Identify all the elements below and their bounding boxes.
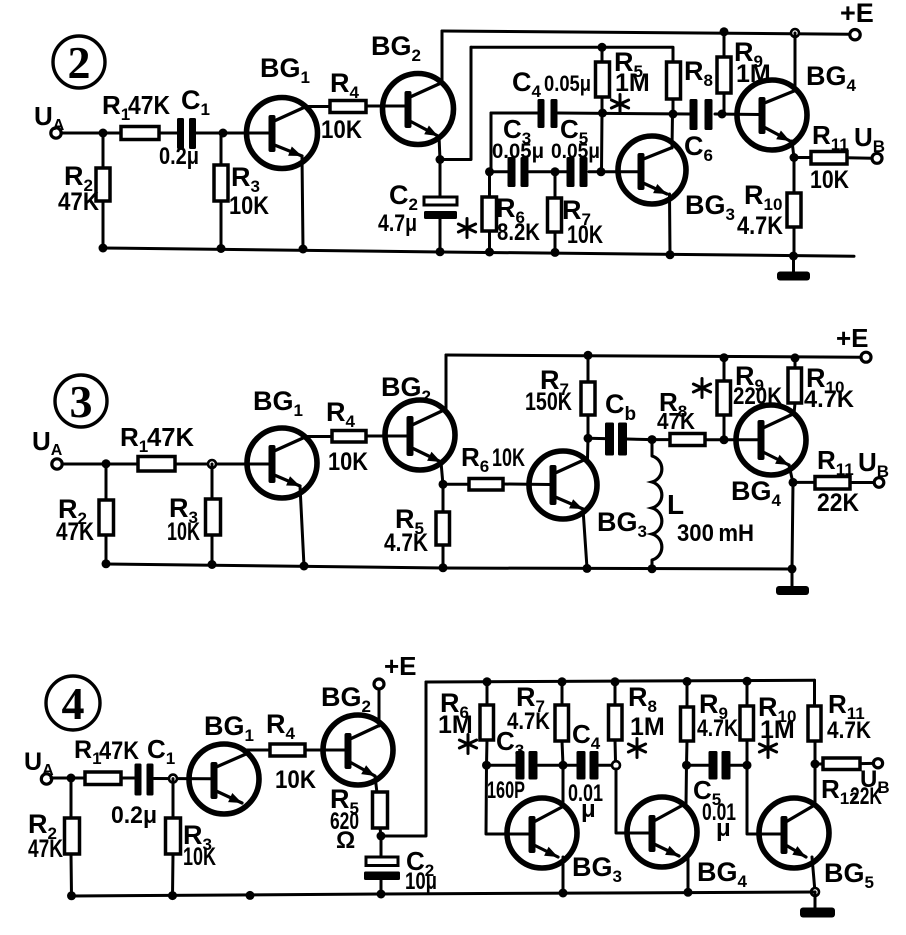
resistor R1 47K (circuit 3) [120,422,194,471]
node R3 top junction (circuit 4) [169,775,177,783]
wire node to BG4 base (circuit 3) [724,438,758,441]
svg-text:47K: 47K [99,737,139,765]
svg-text:10K: 10K [492,444,525,472]
transistor BG1 (circuit 2) [247,53,318,169]
capacitor Cb (circuit 3) [588,389,652,456]
node UA input terminal (circuit 4) [24,748,54,784]
wire BG2 emitter to node (circuit 3) [441,462,443,485]
node R7 top on rail (circuit 3) [584,351,593,360]
transistor BG4 (circuit 3) [731,405,806,510]
node R3 ground junction (circuit 4) [168,891,177,900]
svg-text:10K: 10K [167,518,200,546]
svg-text:+E: +E [384,651,417,681]
svg-text:3: 3 [70,376,93,427]
node Cb R7 junction (circuit 3) [584,434,593,443]
wire BG2 collector riser to +E rail [441,31,444,83]
resistor R2 47K [58,133,110,248]
svg-text:10K: 10K [275,766,316,794]
capacitor C3 0.05u [492,114,544,187]
resistor R1 47K [102,90,170,140]
resistor R2 47K (circuit 4) [28,778,80,896]
resistor R7 4.7K (circuit 4) [507,682,569,765]
ground rail (circuit 3) [106,564,792,569]
svg-text:47K: 47K [147,422,194,452]
node UB output terminal (circuit 4) [860,759,890,797]
node R7 ground junction [551,248,560,257]
circuit 4 badge [46,676,100,730]
wire BG2 collector riser (circuit 3) [444,355,446,410]
node BG3 emitter ground junction [666,250,675,259]
svg-text:1M: 1M [630,713,665,741]
resistor R2 47K (circuit 3) [56,464,114,564]
resistor R9 220K (circuit 3) [717,358,783,440]
wire BG4 emitter to output node [792,141,794,158]
node input junction [99,129,108,138]
svg-text:0.05μ: 0.05μ [544,71,591,96]
ground rail (circuit 4) [72,892,816,896]
capacitor C3 160P (circuit 4) [487,726,538,804]
svg-text:300 mH: 300 mH [677,520,754,547]
svg-text:47K: 47K [657,408,695,434]
resistor R12 22K output (circuit 4) [815,758,882,810]
svg-text:47K: 47K [28,835,63,863]
capacitor C2 4.7u electrolytic [378,160,457,252]
node UA input terminal (circuit 2) [34,101,65,138]
node R6 top on rail (circuit 4) [483,677,492,686]
resistor R10 4.7K (circuit 3) [788,358,855,414]
node BG4 collector on +E rail [791,29,799,37]
svg-text:4.7K: 4.7K [507,708,551,735]
wire BG3 emitter riser (circuit 3) [583,509,587,568]
phase-shift top wire [491,113,759,115]
top rail (circuit 4) [426,680,815,682]
svg-text:0.05μ: 0.05μ [551,139,600,163]
resistor R6 8.2K [458,172,540,252]
node UB output terminal (circuit 2) [854,122,885,163]
resistor R7 150K (circuit 3) [525,355,595,438]
wire BG1 collector to R4 (circuit 4) [246,749,271,752]
svg-text:+E: +E [836,323,869,353]
wire UA to R1 (circuit 3) [62,463,139,466]
resistor R11 22K output (circuit 3) [793,445,874,517]
wire R1 to C1 [159,132,178,135]
node R2 ground junction [99,244,108,253]
capacitor C5 0.01u (circuit 4) [687,751,748,842]
svg-text:10K: 10K [567,221,603,249]
resistor R3 10K (circuit 4) [166,779,217,896]
ground (circuit 3) [776,569,809,595]
capacitor C4 0.05u [512,67,591,128]
node R10 top on rail (circuit 4) [743,677,752,686]
node R9 top on +E rail [720,27,729,36]
transistor BG4 (circuit 2) [737,61,857,150]
resistor R4 10K (circuit 3) [326,397,368,476]
wire BG1 collector to R4 (circuit 3) [303,435,333,438]
svg-text:4.7K: 4.7K [827,717,872,744]
wire BG4 emitter riser (circuit 4) [687,856,690,892]
node R7 bottom junction (circuit 4) [559,761,568,770]
wire R6 to BG3 base (circuit 3) [503,483,550,487]
capacitor C5 0.05u [551,114,600,187]
svg-text:L: L [667,489,684,520]
node R5 ground junction (circuit 3) [439,563,448,572]
svg-text:0.05μ: 0.05μ [492,139,544,163]
wire C1 to BG1 base (circuit 4) [154,777,211,780]
node R7 top on rail (circuit 4) [558,677,567,686]
transistor BG1 (circuit 3) [247,386,317,498]
node R5 top [598,43,607,52]
ground (circuit 2) [777,256,810,281]
wire BG1 emitter riser (circuit 3) [300,486,304,566]
node R6 ground junction [485,248,494,257]
resistor R11 4.7K (circuit 4) [808,680,872,744]
wire BG3 collector riser (circuit 3) [586,439,590,460]
wire node to C3 (circuit 4) [487,764,518,767]
capacitor C1 0.2u (circuit 4) [111,734,175,829]
node R5 link junction [597,167,606,176]
resistor R4 10K (circuit 4) [266,709,316,794]
svg-text:0.2μ: 0.2μ [111,802,157,829]
resistor R10 1M (circuit 4) [740,681,796,765]
resistor R4 10K [321,68,366,144]
resistor R6 10K (circuit 3) [461,442,525,490]
resistor R8 1M (circuit 4) [609,682,665,761]
wire C4 input drop [490,113,493,172]
wire UA to R1 [61,132,122,135]
transistor BG1 (circuit 4) [189,711,259,814]
node R3 ground junction (circuit 3) [208,560,217,569]
wire emitter node to R6 (circuit 3) [443,483,470,486]
wire R10 node to BG5 base (circuit 4) [747,765,782,834]
resistor R9 1M [717,32,771,115]
node R9 bottom junction (circuit 4) [682,761,691,770]
node R9 bottom junction (circuit 3) [720,435,729,444]
wire BG3 collector riser [671,114,675,148]
resistor R5 4.7K (circuit 3) [384,484,450,568]
transistor BG3 (circuit 2) [618,136,735,224]
svg-text:22K: 22K [817,489,859,517]
node ground rail junction [789,252,798,261]
feedback rail from BG2 emitter [471,47,673,62]
svg-text:47K: 47K [56,518,94,546]
node R2 ground junction (circuit 4) [67,891,76,900]
svg-text:4.7K: 4.7K [804,386,855,413]
svg-text:10K: 10K [328,448,368,476]
wire R4 to BG2 base [366,105,406,108]
wire R1 to BG1 base (circuit 3) [175,463,269,466]
node UB output terminal (circuit 3) [858,447,889,487]
node R8 bottom / BG3 collector junction [669,110,678,119]
node R3 ground junction [217,244,226,253]
transistor BG3 (circuit 3) [529,451,647,541]
resistor R5 620 ohm (circuit 4) [330,784,388,854]
svg-text:47K: 47K [128,90,170,120]
circuit 3 badge [55,375,107,427]
svg-text:10K: 10K [229,192,269,220]
svg-text:4: 4 [62,678,85,729]
node R6 bottom junction (circuit 4) [482,761,491,770]
svg-text:10K: 10K [183,843,216,871]
node BG1 emitter ground junction (circuit 3) [300,562,309,571]
wire BG5 collector riser (circuit 4) [814,741,817,806]
wire R4 to BG2 base (circuit 3) [366,435,408,438]
svg-text:0.2μ: 0.2μ [159,143,199,170]
node BG3 emitter ground junction (circuit 4) [559,889,568,898]
wire C3 to node (circuit 4) [538,764,564,767]
wire R5 node to top rail riser (circuit 4) [381,682,426,836]
wire emitter node to feedback riser [440,47,471,159]
resistor R11 10K output [794,120,872,194]
svg-text:4.7K: 4.7K [384,529,428,557]
ground (circuit 4) [800,892,835,918]
node ground junction (circuit 3) [788,564,797,573]
wire R5 bottom link [600,113,604,172]
node BG5 emitter ground junction (circuit 4) [811,888,819,896]
wire BG4 collector riser (circuit 4) [685,765,689,805]
+E terminal (circuit 3) [836,323,871,362]
wire output node to ground (circuit 3) [792,482,793,569]
ground rail (circuit 2) [102,248,854,256]
resistor R1 47K (circuit 4) [74,736,139,785]
svg-text:Ω: Ω [336,827,355,854]
wire C4 node to BG4 base (circuit 4) [616,769,650,833]
capacitor C4 0.01u (circuit 4) [563,719,616,823]
svg-text:8.2K: 8.2K [497,219,541,246]
inductor L 300mH [652,440,754,569]
node BG2 emitter junction (circuit 3) [439,480,448,489]
node BG1 emitter ground junction (circuit 4) [246,891,255,900]
node BG4 emitter junction (circuit 3) [789,478,798,487]
svg-text:160P: 160P [487,777,525,804]
wire BG2 emitter to node [439,136,440,160]
wire R4 to BG2 base (circuit 4) [305,749,346,752]
transistor BG3 (circuit 4) [507,798,622,886]
svg-text:4.7μ: 4.7μ [378,210,417,237]
node C2 ground junction (circuit 4) [377,890,386,899]
phase-shift lower wire [491,170,638,173]
node L ground junction (circuit 3) [648,564,657,573]
svg-text:10K: 10K [810,166,849,194]
svg-text:150K: 150K [525,388,572,416]
node L top junction (circuit 3) [648,435,657,444]
wire R1 to C1 (circuit 4) [121,777,136,780]
svg-text:+E: +E [840,0,874,28]
wire BG4 emitter to output node (circuit 3) [789,465,793,483]
wire UA to R1 (circuit 4) [51,777,86,780]
node input junction (circuit 3) [102,459,111,468]
node input junction (circuit 4) [67,774,76,783]
node R10 bottom junction (circuit 4) [743,761,752,770]
+E terminal (circuit 4) [374,651,417,689]
node BG1 emitter ground junction [299,245,308,254]
+E supply rail (circuit 3) [446,355,861,357]
resistor R6 1M (circuit 4) [438,682,494,765]
node BG2 emitter junction [436,155,445,164]
node C2 ground junction [436,247,445,256]
resistor R8 [667,56,713,115]
svg-text:μ: μ [716,815,731,842]
node R12 junction (circuit 4) [811,760,820,769]
transistor BG4 (circuit 4) [627,797,748,891]
node C4 output junction (circuit 4) [612,761,620,769]
transistor BG2 (circuit 4) [321,682,393,785]
+E supply rail (circuit 2) [442,31,850,34]
node R10 top on rail (circuit 3) [791,353,800,362]
node UA input terminal (circuit 3) [32,426,63,469]
svg-text:4.7K: 4.7K [697,715,739,742]
node R9 top on rail (circuit 3) [720,353,729,362]
svg-text:2: 2 [68,37,91,88]
wire R8 to node (circuit 3) [705,438,724,441]
svg-text:1M: 1M [615,69,650,97]
capacitor C2 10u electrolytic (circuit 4) [364,836,437,895]
wire BG3 collector riser (circuit 4) [562,765,565,807]
resistor R8 47K (circuit 3) [657,379,711,446]
+E terminal (circuit 2) [840,0,874,40]
node R3 top junction [219,129,228,138]
svg-text:4.7K: 4.7K [737,212,783,240]
node R2 ground junction (circuit 3) [102,559,111,568]
node R9 top on rail (circuit 4) [683,677,692,686]
wire BG3 emitter riser [668,194,672,255]
wire L node to R8 (circuit 3) [652,438,671,441]
node BG4 emitter ground junction (circuit 4) [684,888,693,897]
transistor BG2 (circuit 3) [381,372,455,470]
wire BG2 emitter to R5 (circuit 4) [375,776,377,793]
svg-text:10μ: 10μ [405,868,437,895]
wire BG3 emitter riser (circuit 4) [562,857,565,893]
node C3 input junction [485,167,494,176]
transistor BG5 (circuit 4) [759,798,874,892]
svg-text:47K: 47K [58,188,99,216]
capacitor C6 [684,99,713,165]
resistor R5 1M [596,47,650,114]
resistor R10 4.7K [737,158,801,257]
resistor R3 10K [214,133,269,248]
node R8 top on rail (circuit 4) [611,677,620,686]
node R9 bottom junction [718,110,727,119]
transistor BG2 (circuit 2) [371,31,454,145]
wire BG1 emitter riser [302,156,303,249]
node R3 top junction (circuit 3) [208,460,216,468]
svg-text:μ: μ [581,796,596,823]
node R5 bottom junction [598,109,607,118]
wire BG4 collector riser [794,33,797,91]
svg-text:10K: 10K [321,116,362,144]
resistor R9 4.7K (circuit 4) [681,682,739,766]
wire BG1 collector to R4 [305,105,331,108]
node R7 top junction [551,167,560,176]
resistor R3 10K (circuit 3) [167,464,221,565]
circuit 2 badge [53,36,105,88]
wire C1 to BG1 base [196,132,269,135]
wire BG5 emitter riser (circuit 4) [812,857,815,892]
svg-text:1M: 1M [760,716,795,744]
node BG3 emitter ground junction (circuit 3) [583,564,592,573]
node BG4 emitter junction [790,153,799,162]
wire R6 node to BG3 base (circuit 4) [486,765,530,834]
resistor R7 10K [548,172,604,253]
wire BG2 collector to +E (circuit 4) [378,689,381,726]
node R5 bottom junction (circuit 4) [377,832,386,841]
capacitor C1 0.2u [159,85,210,170]
